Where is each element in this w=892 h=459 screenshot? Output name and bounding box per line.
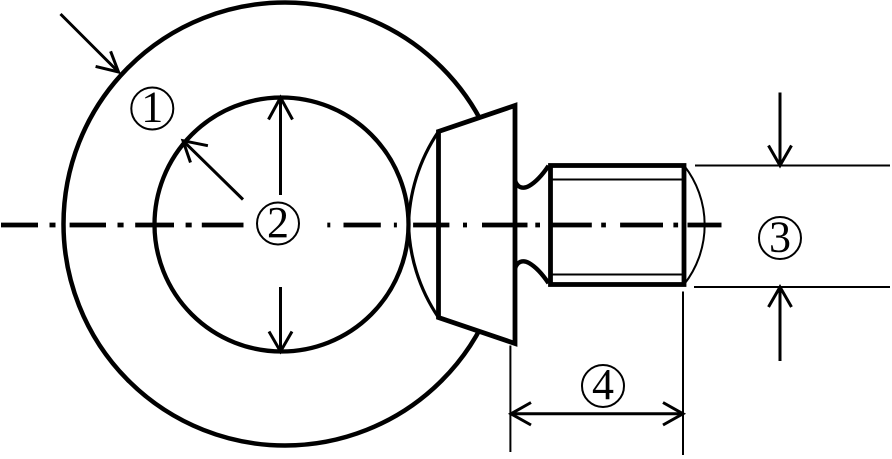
extension line top (dimension 3): [695, 165, 890, 167]
svg-text:3: 3: [769, 213, 791, 262]
shank (threaded cylinder): [551, 166, 685, 285]
svg-text:1: 1: [141, 83, 163, 132]
svg-text:4: 4: [592, 360, 614, 409]
ring-to-collar transition arc top: [409, 132, 439, 228]
dimension arrow bottom (dimension 3): [769, 287, 792, 361]
thread end cap arc: [684, 166, 705, 285]
ring-to-collar transition arc bottom: [409, 221, 439, 317]
neck fillet top: [515, 166, 549, 188]
extension line bottom (dimension 3): [694, 286, 890, 288]
neck fillet bottom: [515, 261, 549, 283]
label 3: [759, 213, 801, 262]
extension line right (dimension 4): [682, 292, 684, 456]
label 1: [131, 83, 173, 132]
thread root line bottom: [551, 274, 683, 276]
collar (trapezoid): [439, 106, 516, 344]
thread root line top: [551, 179, 683, 181]
leader arrow to outer circle (callout 1): [61, 14, 119, 72]
diameter dimension line upper (callout 2): [269, 98, 293, 196]
inner hole circle: [155, 98, 409, 352]
radius leader arrow to inner circle (callout 2): [183, 141, 243, 200]
dimension arrow top (dimension 3): [769, 93, 792, 166]
outer ring circle: [64, 3, 507, 446]
label 4: [582, 360, 624, 409]
svg-text:2: 2: [267, 198, 289, 247]
dimension line with arrows (dimension 4): [511, 403, 683, 426]
label 2: [257, 198, 299, 247]
diameter dimension line lower (callout 2): [269, 287, 292, 352]
extension line left (dimension 4): [509, 346, 511, 453]
centerline (dash-dot axis): [1, 223, 722, 228]
